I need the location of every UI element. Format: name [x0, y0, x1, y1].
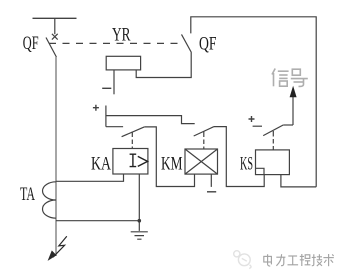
svg-text:TA: TA [20, 184, 35, 205]
svg-text:QF: QF [23, 33, 39, 54]
svg-text:KM: KM [161, 154, 183, 175]
svg-text:KA: KA [91, 154, 111, 175]
svg-text:KS: KS [240, 154, 253, 175]
svg-text:YR: YR [112, 25, 131, 46]
svg-text:QF: QF [199, 33, 217, 54]
